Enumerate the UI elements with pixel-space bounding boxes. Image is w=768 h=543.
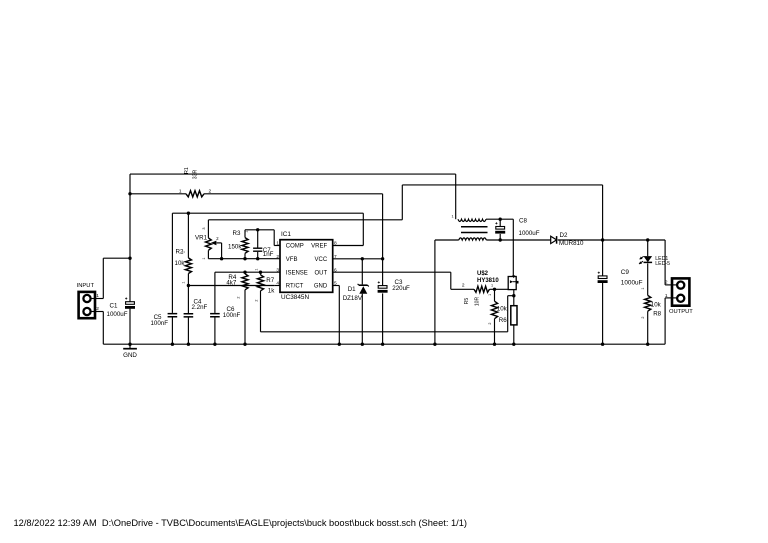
svg-text:1nF: 1nF: [263, 251, 274, 258]
svg-text:2: 2: [96, 306, 99, 312]
svg-text:R8: R8: [653, 311, 661, 318]
svg-text:INPUT: INPUT: [77, 283, 95, 289]
svg-text:1: 1: [276, 241, 279, 247]
svg-text:C8: C8: [519, 217, 527, 224]
svg-text:4: 4: [276, 281, 279, 287]
svg-text:3: 3: [202, 227, 206, 229]
svg-text:C9: C9: [621, 269, 630, 276]
svg-text:1: 1: [451, 215, 453, 219]
svg-text:1: 1: [96, 293, 99, 299]
svg-text:10k: 10k: [497, 306, 508, 313]
svg-text:7: 7: [334, 254, 337, 260]
svg-text:100nF: 100nF: [150, 320, 168, 327]
svg-text:1: 1: [665, 293, 668, 299]
svg-text:1: 1: [245, 230, 249, 232]
svg-text:R1: R1: [184, 167, 190, 174]
svg-text:GND: GND: [314, 284, 328, 290]
svg-text:HY3810: HY3810: [477, 278, 499, 284]
svg-text:1000uF: 1000uF: [519, 230, 540, 237]
svg-text:1000uF: 1000uF: [107, 311, 128, 318]
svg-text:3: 3: [276, 267, 279, 273]
svg-text:GND: GND: [123, 352, 137, 359]
svg-text:COMP: COMP: [286, 244, 304, 250]
svg-text:RT/CT: RT/CT: [286, 284, 304, 290]
svg-text:8: 8: [334, 241, 337, 247]
svg-text:33R: 33R: [193, 169, 199, 179]
svg-text:2: 2: [665, 280, 668, 286]
svg-text:OUT: OUT: [315, 270, 328, 276]
svg-text:1: 1: [491, 284, 493, 288]
svg-text:5: 5: [334, 281, 337, 287]
svg-text:12/8/2022 12:39 AM D:\OneDriv: 12/8/2022 12:39 AM D:\OneDrive - TVBC\Do…: [14, 518, 468, 528]
svg-text:2: 2: [276, 254, 279, 260]
svg-text:1: 1: [182, 281, 186, 283]
svg-text:10k: 10k: [651, 302, 662, 309]
svg-text:VCC: VCC: [315, 257, 328, 263]
svg-text:100nF: 100nF: [223, 312, 241, 319]
svg-text:2: 2: [254, 299, 258, 301]
svg-text:1: 1: [254, 268, 258, 270]
svg-text:1k: 1k: [268, 288, 275, 295]
svg-text:10k: 10k: [175, 260, 186, 267]
svg-text:2: 2: [209, 188, 212, 194]
svg-text:2: 2: [237, 296, 241, 298]
svg-text:2: 2: [488, 322, 492, 324]
svg-text:R7: R7: [266, 277, 274, 284]
svg-text:10R: 10R: [475, 297, 481, 307]
svg-text:UC3845N: UC3845N: [281, 294, 309, 301]
svg-text:220uF: 220uF: [392, 285, 410, 292]
svg-text:VREF: VREF: [311, 244, 327, 250]
svg-text:1: 1: [179, 188, 182, 194]
svg-text:2.2nF: 2.2nF: [192, 304, 208, 311]
svg-text:C1: C1: [110, 302, 118, 309]
svg-text:1: 1: [202, 258, 206, 260]
svg-text:1: 1: [641, 287, 645, 289]
svg-text:1: 1: [182, 251, 186, 253]
svg-text:R3: R3: [233, 230, 241, 237]
svg-text:2: 2: [462, 282, 465, 288]
svg-text:LED-5: LED-5: [655, 261, 670, 267]
svg-text:R6: R6: [499, 317, 507, 324]
svg-text:D2: D2: [560, 232, 568, 239]
svg-text:2: 2: [641, 316, 645, 318]
svg-text:U$2: U$2: [477, 271, 489, 277]
svg-text:OUTPUT: OUTPUT: [669, 309, 693, 315]
svg-text:ISENSE: ISENSE: [286, 270, 308, 276]
svg-text:VR1: VR1: [195, 234, 208, 241]
svg-text:4k7: 4k7: [226, 280, 237, 287]
svg-text:1000uF: 1000uF: [621, 279, 643, 286]
svg-text:R5: R5: [464, 298, 470, 305]
svg-text:D1: D1: [348, 286, 356, 293]
svg-text:MUR810: MUR810: [559, 240, 584, 247]
svg-text:1: 1: [488, 294, 492, 296]
svg-text:150k: 150k: [228, 243, 242, 250]
svg-text:DZ18V: DZ18V: [343, 295, 363, 302]
svg-text:6: 6: [334, 267, 337, 273]
svg-text:IC1: IC1: [281, 231, 291, 238]
svg-text:VFB: VFB: [286, 257, 298, 263]
